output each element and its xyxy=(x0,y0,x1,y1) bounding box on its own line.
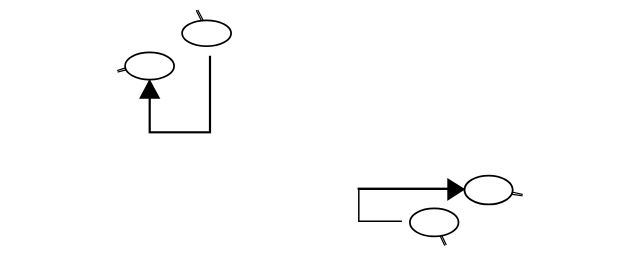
arrowhead into node C (points right) xyxy=(448,179,465,200)
stem on node C xyxy=(512,192,522,196)
arrowhead into node B (points up) xyxy=(140,80,160,98)
node D (lower ellipse, lower-right cluster) xyxy=(410,208,459,236)
wire into arrowhead at node C (thick horizontal segment) xyxy=(358,188,449,190)
node A (top ellipse, upper-left cluster) xyxy=(182,20,231,46)
stem on node B xyxy=(117,68,126,72)
wire from node A down, across, and up into arrowhead at node B xyxy=(150,56,210,133)
stem on node D xyxy=(440,236,446,246)
node C (right ellipse, lower-right cluster) xyxy=(465,176,513,205)
node B (left ellipse, upper-left cluster) xyxy=(125,52,174,79)
wire from node D: left then up (thin segments) xyxy=(359,190,402,222)
stem on node A xyxy=(196,10,203,21)
